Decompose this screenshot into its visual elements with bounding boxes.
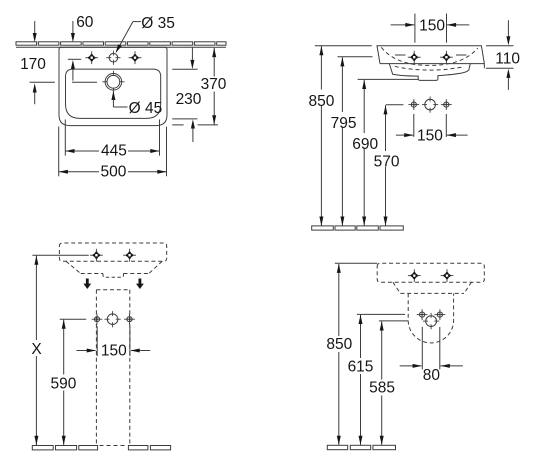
extension line rim top (850) xyxy=(315,45,372,47)
tap deck reference line xyxy=(68,58,81,60)
dim 370 line xyxy=(213,48,215,125)
svg-text:370: 370 xyxy=(201,76,227,93)
dim 60 lower arrow xyxy=(71,60,75,69)
mounting direction arrow left xyxy=(83,279,91,290)
dim 150b right arrow xyxy=(447,133,456,137)
extension line holes level (590) xyxy=(60,318,86,320)
dim 570 top arrow xyxy=(384,105,388,114)
dim 690 top arrow xyxy=(362,80,366,89)
dim 500 right arrow xyxy=(157,170,166,174)
wall fixing hole right (install) xyxy=(124,314,135,325)
dim 230 lower arrow xyxy=(191,119,195,128)
right fixing mark (install side) xyxy=(441,269,454,282)
tap supply hole (side) xyxy=(423,313,439,329)
dim 150t left line xyxy=(391,24,415,26)
siphon cover dashed U outline xyxy=(408,293,453,343)
extension line supply hole (585) xyxy=(379,320,408,322)
extension line drain level inner xyxy=(72,81,97,83)
dim 170 lower arrow xyxy=(33,83,37,92)
dim 690 line xyxy=(363,80,365,226)
svg-text:150: 150 xyxy=(101,343,127,360)
left fixing mark (plan) xyxy=(85,51,98,64)
leader Ø35 diagonal xyxy=(118,22,133,50)
dim 150b left arrow xyxy=(404,133,413,137)
svg-text:445: 445 xyxy=(101,143,127,160)
pedestal right edge dashed xyxy=(129,290,131,445)
svg-text:500: 500 xyxy=(100,163,126,180)
dim 570 bottom arrow xyxy=(384,217,388,226)
dim 795 line xyxy=(341,57,343,226)
dim 590 bottom arrow xyxy=(62,436,66,445)
basin apron and drain boss (front) xyxy=(389,64,470,81)
svg-text:585: 585 xyxy=(369,380,395,397)
dim 615 bottom arrow xyxy=(359,436,363,445)
apron dashed curve xyxy=(395,66,465,70)
dim 230 upper arrow xyxy=(190,60,194,69)
apron dashed bottom left xyxy=(81,273,103,275)
dim 80 left line xyxy=(400,365,422,367)
dim 150i left arrow xyxy=(87,349,96,353)
dim 150t left extension xyxy=(414,14,416,43)
dim 585 top arrow xyxy=(380,321,384,330)
left fixing mark dashed view xyxy=(90,249,103,262)
dim 615 line xyxy=(360,315,362,445)
dim 850i bottom arrow xyxy=(337,436,341,445)
svg-text:850: 850 xyxy=(308,93,334,110)
svg-text:570: 570 xyxy=(374,154,400,171)
dim 370 bottom arrow xyxy=(212,115,216,124)
wall fixing hole right (side) xyxy=(435,309,446,320)
mounting direction arrow right xyxy=(136,279,144,290)
svg-text:590: 590 xyxy=(50,375,76,392)
dim 590 top arrow xyxy=(62,320,66,329)
wall fixing hole left (install) xyxy=(92,314,103,325)
dim 445 left arrow xyxy=(65,149,74,153)
dim 150b right extension xyxy=(445,114,447,137)
apron dashed bottom right xyxy=(124,273,149,275)
dim 570 line xyxy=(385,105,387,226)
right fixing mark dashed view xyxy=(123,249,136,262)
basin rim step right xyxy=(483,63,485,68)
dim 850 bottom arrow xyxy=(319,217,323,226)
svg-text:850: 850 xyxy=(326,336,352,353)
left fixing mark (front) xyxy=(408,51,421,64)
basin body dashed (side install) xyxy=(377,263,484,282)
svg-text:230: 230 xyxy=(176,91,202,108)
extension line basin underside (690) xyxy=(358,78,419,80)
apron dashed left side xyxy=(66,261,81,273)
deck mark left xyxy=(395,54,406,56)
extension line bowl bottom xyxy=(172,118,197,120)
dim 850i line xyxy=(338,264,340,445)
wall fixing hole right (front) xyxy=(441,99,452,110)
dim X line xyxy=(35,256,37,445)
dim 795 top arrow xyxy=(340,57,344,66)
right fixing mark (plan) xyxy=(129,51,142,64)
dim 500 right extension xyxy=(166,127,168,177)
dim 445 right extension xyxy=(159,120,161,156)
apron dashed left (side) xyxy=(393,282,401,293)
tap hole Ø35 (plan) xyxy=(106,51,120,65)
extension line holes level (570) xyxy=(386,104,404,106)
dim 150b left line xyxy=(396,134,413,136)
dim 80 right extension xyxy=(439,327,441,370)
dim 80 left extension xyxy=(421,327,423,370)
floor tiles (install view) xyxy=(32,446,53,450)
svg-text:150: 150 xyxy=(417,127,443,144)
tap supply hole (front) xyxy=(422,97,438,113)
svg-text:170: 170 xyxy=(20,56,46,73)
left fixing mark (install side) xyxy=(408,269,421,282)
svg-text:150: 150 xyxy=(419,17,445,34)
dim 150i right extension xyxy=(129,326,131,356)
dim 80 right arrow xyxy=(441,364,450,368)
drain hole Ø45 (plan) xyxy=(105,74,122,91)
dim 585 line xyxy=(381,321,383,445)
dim 615 top arrow xyxy=(359,315,363,324)
wall face line xyxy=(16,46,226,48)
dim 150i right line xyxy=(131,350,150,352)
dim 590 line xyxy=(63,320,65,445)
inner bowl dashed (front) xyxy=(381,47,478,65)
dim 850 line xyxy=(320,46,322,226)
dim 150i right arrow xyxy=(131,349,140,353)
inner bowl outline (plan) xyxy=(66,69,161,118)
dim 170 upper arrow xyxy=(33,33,37,42)
leader Ø45 horizontal xyxy=(113,106,127,108)
extension line fixing holes (615) xyxy=(357,313,405,315)
dim 795 bottom arrow xyxy=(340,217,344,226)
dim 110 bottom arrow xyxy=(506,69,510,78)
svg-text:795: 795 xyxy=(331,115,357,132)
dim 150t right extension xyxy=(446,14,448,43)
wall tile hatching (plan) xyxy=(16,42,37,45)
dim 500 left extension xyxy=(58,127,60,177)
leader Ø45 vertical xyxy=(112,99,114,107)
wall fixing hole left (front) xyxy=(408,99,419,110)
dim 850i top arrow xyxy=(337,264,341,273)
extension line basin front left seg xyxy=(172,124,183,126)
dim 150t left arrow xyxy=(405,23,414,27)
dim 150t right arrow xyxy=(447,23,456,27)
deck mark right xyxy=(456,54,467,56)
tap supply hole (install) xyxy=(105,311,121,327)
extension line tap deck (X) xyxy=(32,254,88,256)
svg-text:60: 60 xyxy=(76,14,94,31)
dim 110 upper extension xyxy=(486,45,514,47)
svg-text:110: 110 xyxy=(495,50,520,67)
dim 150i left extension xyxy=(96,326,98,356)
dim 585 bottom arrow xyxy=(380,436,384,445)
basin body bottom line xyxy=(380,63,484,65)
dim 150t right line xyxy=(447,24,469,26)
dim 80 right line xyxy=(440,365,463,367)
floor line dashed behind pedestal xyxy=(100,445,128,447)
pedestal top dashed xyxy=(96,289,129,291)
dim 80 left arrow xyxy=(413,364,422,368)
dim 110 lower extension xyxy=(486,67,514,69)
floor tiles (side install view) xyxy=(327,445,347,449)
dim 850 top arrow xyxy=(319,46,323,55)
dim 150b right line xyxy=(447,134,468,136)
floor tile hatching (front view) xyxy=(312,226,334,230)
wall fixing hole left (side) xyxy=(417,309,428,320)
dim 445 line xyxy=(65,150,159,152)
basin body outline (front) xyxy=(377,46,484,64)
drain boss dashed xyxy=(103,274,124,278)
svg-text:80: 80 xyxy=(423,367,441,384)
dim 150i left line xyxy=(77,350,96,352)
svg-text:Ø 35: Ø 35 xyxy=(141,15,175,32)
dim 445 right arrow xyxy=(150,149,159,153)
dim 60 upper arrow xyxy=(71,33,75,42)
extension line rim top (850 install) xyxy=(335,262,377,264)
svg-text:690: 690 xyxy=(352,136,378,153)
apron dashed right side xyxy=(149,261,162,273)
leader Ø35 horizontal xyxy=(133,21,141,23)
extension line basin front right seg xyxy=(198,124,218,126)
apron dashed bottom (side) xyxy=(400,292,464,294)
svg-text:Ø 45: Ø 45 xyxy=(129,100,163,117)
apron dashed right (side) xyxy=(464,282,472,293)
extension line drain level left xyxy=(30,81,55,83)
dim 690 bottom arrow xyxy=(362,217,366,226)
leader Ø35 arrow xyxy=(116,44,122,53)
right fixing mark (front) xyxy=(440,51,453,64)
svg-text:615: 615 xyxy=(348,358,374,375)
svg-text:X: X xyxy=(31,341,42,358)
extension line tap level (795) xyxy=(338,56,373,58)
dim 110 top arrow xyxy=(506,36,510,45)
extension line bowl top xyxy=(172,68,197,70)
pedestal left edge dashed xyxy=(95,290,97,445)
dim 150b left extension xyxy=(413,114,415,137)
leader Ø45 arrow xyxy=(111,91,115,100)
dim 500 left arrow xyxy=(59,170,68,174)
dim X bottom arrow xyxy=(34,436,38,445)
dim 500 line xyxy=(59,171,167,173)
dim 445 left extension xyxy=(64,120,66,156)
dim 370 top arrow xyxy=(212,48,216,57)
basin body dashed (front) xyxy=(59,243,166,261)
dim X top arrow xyxy=(34,256,38,265)
basin outer rim (plan) xyxy=(59,47,167,125)
